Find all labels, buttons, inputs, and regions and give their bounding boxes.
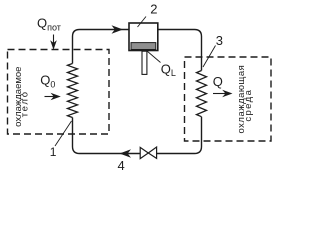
arrow on bottom wire (leftward) bbox=[120, 149, 132, 158]
wire: below zigzag 3 to bottom wire bbox=[157, 117, 202, 154]
wire: below zigzag 1 to bottom wire bbox=[73, 118, 141, 154]
evaporator zigzag 1 (left) bbox=[68, 64, 78, 118]
compressor piston rod bbox=[142, 51, 147, 74]
Q right arrow bbox=[213, 93, 226, 95]
svg-text:1: 1 bbox=[50, 145, 57, 159]
svg-text:среда: среда bbox=[243, 89, 254, 122]
throttle valve 4 bbox=[140, 147, 148, 158]
leader line for label 3 bbox=[203, 46, 216, 68]
leader line for label 1 bbox=[55, 121, 72, 146]
leader line for label QL bbox=[147, 51, 161, 63]
compressor piston (gray) bbox=[131, 43, 156, 50]
svg-text:тело: тело bbox=[20, 90, 31, 117]
Q_pot down arrow bbox=[53, 35, 55, 45]
wire: compressor to right corner and down bbox=[158, 30, 202, 71]
compressor 2 body bbox=[129, 23, 158, 51]
svg-text:3: 3 bbox=[216, 33, 223, 48]
wire: left riser to top wire bbox=[73, 30, 130, 64]
condenser zigzag 3 (right) bbox=[197, 71, 207, 117]
svg-text:4: 4 bbox=[118, 158, 125, 173]
right dashed box (cooling medium) bbox=[185, 57, 272, 141]
svg-text:Q: Q bbox=[213, 74, 223, 89]
leader line for label 2 bbox=[138, 17, 147, 28]
svg-text:2: 2 bbox=[150, 2, 157, 17]
left dashed box (cooled body) bbox=[8, 50, 110, 135]
arrow on top wire (rightward) bbox=[112, 25, 124, 34]
Q_0 right arrow bbox=[45, 96, 56, 98]
